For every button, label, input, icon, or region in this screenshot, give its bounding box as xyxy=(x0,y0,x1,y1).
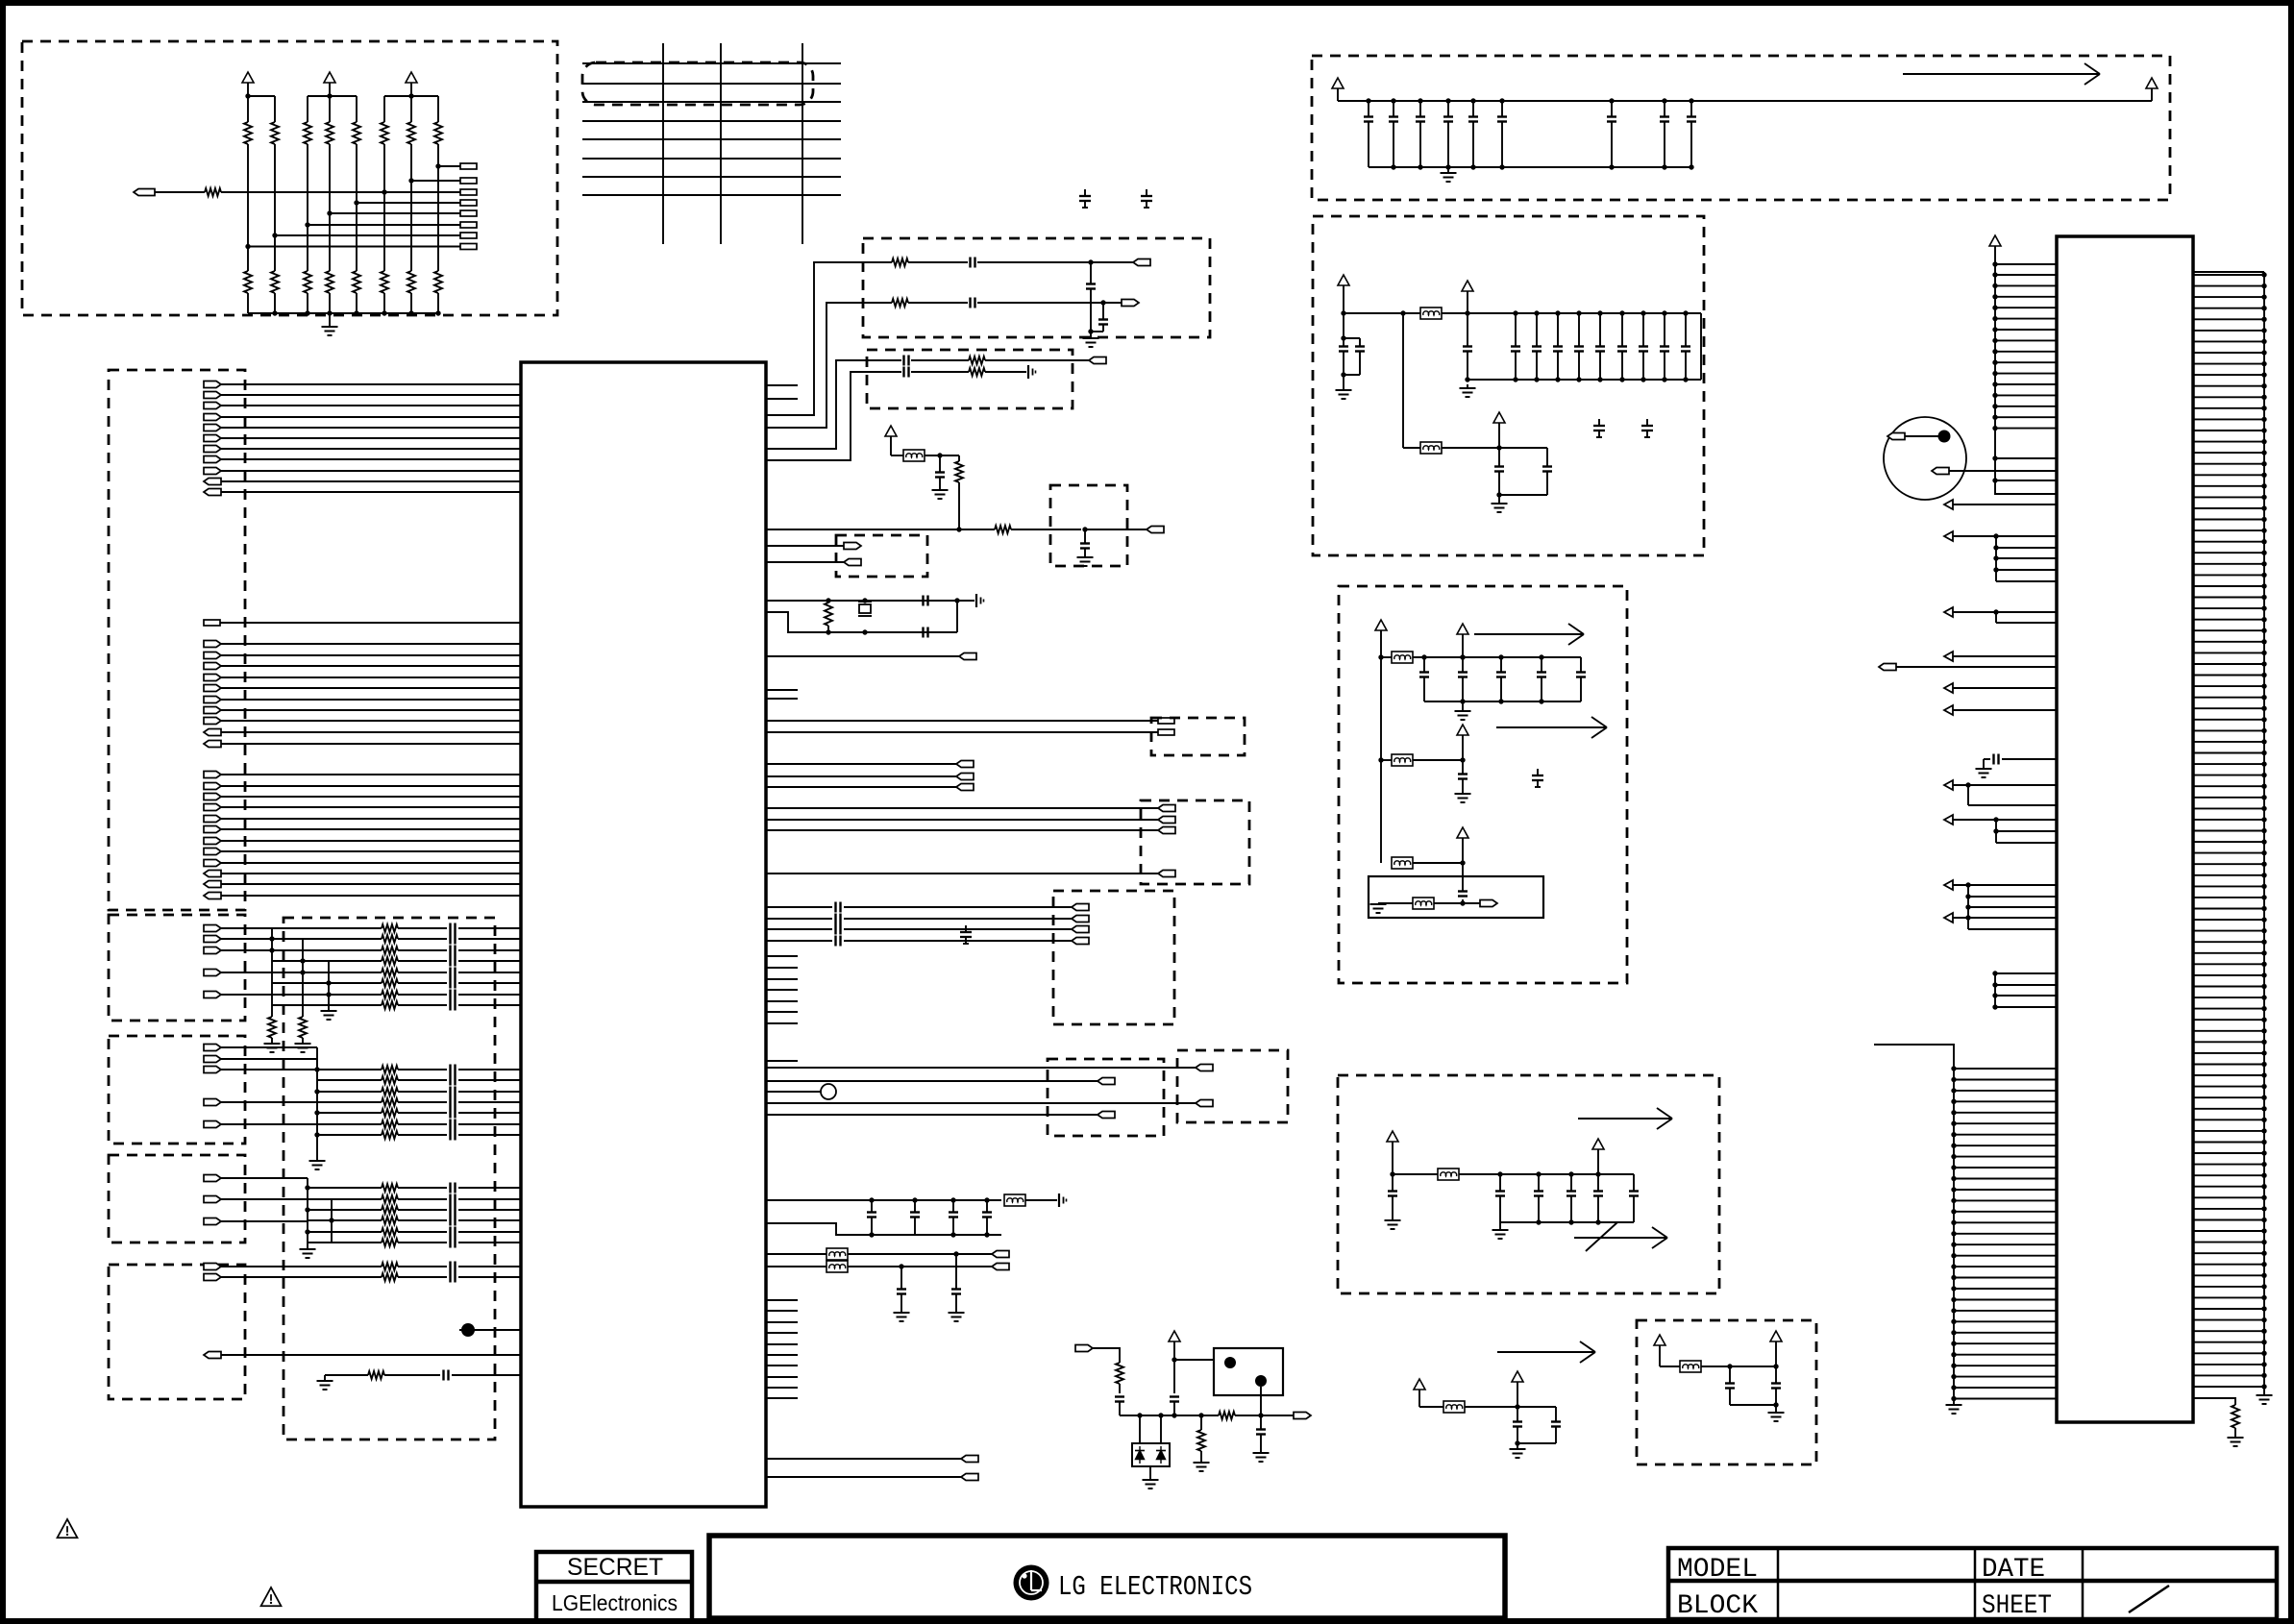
series resistor/cap row D1 (R,C) xyxy=(308,1183,521,1193)
signal flag (mid 2) xyxy=(956,774,974,780)
wire flag row 795 xyxy=(766,763,956,765)
wire branch2 xyxy=(1378,757,1465,762)
capacitor C (audio1 gnd) xyxy=(1086,262,1096,334)
filter capacitor C15 xyxy=(1617,310,1627,381)
bypass capacitor C1 (bank) xyxy=(1364,98,1373,167)
filter capacitor C30 (mem) xyxy=(1495,1174,1505,1222)
signal flag (grp3 3) xyxy=(1072,926,1089,933)
pin stub U1 right 3 xyxy=(766,689,798,691)
power arrow (bead2) xyxy=(1493,412,1505,448)
power arrow (bank right) xyxy=(2146,78,2158,101)
signal arrow (branch1) xyxy=(1474,624,1584,645)
pin arrow U2 group a xyxy=(1944,531,2057,581)
power arrow VCC (col7) xyxy=(406,72,417,96)
resistor R (xtal) xyxy=(825,598,832,634)
bypass capacitor C9 (bank) xyxy=(1687,98,1696,167)
signal flag LCD pin 7 xyxy=(204,446,221,453)
ferrite bead FB2 xyxy=(1420,442,1442,454)
filter capacitor C13 xyxy=(1574,310,1584,381)
svg-text:SHEET: SHEET xyxy=(1982,1591,2052,1621)
ground (tie B1) xyxy=(264,1038,281,1052)
series resistor/cap row B5 (R,C) xyxy=(272,968,521,978)
wire LCD pin 5 to U1 xyxy=(221,427,521,429)
signal flag LCD pin 2 xyxy=(204,392,221,399)
pull-up/pull-down resistor column 5 (R5a top, R5b bottom) xyxy=(353,96,360,313)
wire U1 long row xyxy=(766,529,995,530)
capacitor C (chg3) xyxy=(1256,1415,1266,1453)
wire U1 to RC2 row1 xyxy=(766,360,867,449)
dashed box: audio supply filters xyxy=(1339,586,1627,983)
wire aux lower xyxy=(1730,1404,1776,1406)
wire LCD pin 10 to U1 xyxy=(221,480,521,482)
wire U1 aux b xyxy=(925,453,959,457)
wire group U2 mid-left pins (4) xyxy=(1992,971,2057,1009)
signal arrow (mem) 1 xyxy=(1578,1108,1672,1129)
signal flag (chg in) xyxy=(1075,1345,1093,1352)
resistor R (mic1) xyxy=(969,357,1089,364)
capacitor C40 (aux) xyxy=(1513,1407,1522,1446)
input signal flag (key row in) xyxy=(134,189,205,196)
wire conn A pin 3 to U1 xyxy=(221,665,521,667)
pin stub U1 right mid 5 xyxy=(766,1000,798,1002)
pin stub U1 right mid 7 xyxy=(766,1022,798,1024)
ground (branch1) xyxy=(1455,701,1471,720)
filter capacitor C20 (branch1) xyxy=(1419,654,1429,701)
signal flag conn A pin 5 xyxy=(204,685,221,692)
LG ELECTRONICS title block with logo xyxy=(709,1536,1505,1618)
warning triangle 2 xyxy=(261,1587,282,1606)
wire tie B col2 xyxy=(300,939,305,1017)
signal flag LCD pin 4 xyxy=(204,414,221,421)
svg-text:BLOCK: BLOCK xyxy=(1677,1591,1758,1621)
power arrow (bank left) xyxy=(1332,78,1344,101)
dashed box: test point flags xyxy=(836,535,927,577)
power arrow (U1 aux) xyxy=(885,426,897,455)
wire tie D col2 xyxy=(329,1199,333,1243)
power arrow (mem filter) xyxy=(1387,1131,1398,1177)
wire LCD pin 9 to U1 xyxy=(221,470,521,472)
filter capacitor C14 xyxy=(1595,310,1605,381)
signal flag (grp2 1) xyxy=(1158,805,1175,812)
resistor (E RC) xyxy=(368,1371,384,1379)
signal flag conn B pin 11 xyxy=(204,881,221,888)
resistor R (audio1) xyxy=(863,258,968,266)
capacitor C42 xyxy=(1725,1366,1735,1405)
ferrite bead FB10 xyxy=(903,450,925,461)
ground (diodes) xyxy=(1143,1466,1159,1489)
wire filter branch tap xyxy=(1403,313,1420,448)
signal flag LCD pin 5 xyxy=(204,425,221,431)
power arrow (branch feed) xyxy=(1375,620,1387,863)
wire conn B pin 5 to U1 xyxy=(221,818,521,820)
wire flag C 1 xyxy=(221,1046,317,1048)
wire group U2 upper-left pins (16) xyxy=(1992,261,2057,494)
power arrow (after bead) xyxy=(1462,281,1473,313)
pull-up/pull-down resistor column 1 (R1a top, R1b bottom) xyxy=(244,96,252,313)
bypass capacitor C2 (bank) xyxy=(1389,98,1398,167)
signal flag (grp2 3) xyxy=(1158,827,1175,834)
wire conn A pin 9 to U1 xyxy=(221,731,521,733)
diode D1 xyxy=(1135,1446,1145,1464)
series resistor/cap row B6 (R,C) xyxy=(272,978,521,989)
signal flag LCD pin 1 xyxy=(204,381,221,388)
signal flag conn A pin 8 xyxy=(204,718,221,725)
wire LCD pin 3 to U1 xyxy=(221,405,521,406)
series resistor (key input) xyxy=(205,188,221,196)
wire U2 pin row 477 xyxy=(1992,455,2057,460)
wire U1 to RC box row2 xyxy=(766,303,863,428)
wire LCD pin 7 to U1 xyxy=(221,448,521,450)
capacitor C (mic1) xyxy=(904,356,970,366)
dashed box: flags group 4 xyxy=(1048,1059,1164,1136)
signal flag group C 5 xyxy=(204,1121,221,1128)
dashed box: audio out RC filter xyxy=(863,238,1210,337)
dashed box: flags group 3 xyxy=(1053,891,1174,1024)
key matrix row wire 6 to terminal xyxy=(305,222,477,228)
capacitor C51 (bus) xyxy=(910,1200,920,1235)
wire after bead xyxy=(1442,310,1701,315)
capacitor C50 (bus) xyxy=(867,1200,876,1235)
ground (after bead) xyxy=(1460,384,1476,397)
ground (branch2) xyxy=(1455,794,1471,802)
pull-up/pull-down resistor column 3 (R3a top, R3b bottom) xyxy=(304,96,311,313)
svg-text:MODEL: MODEL xyxy=(1677,1555,1758,1585)
wire flag row 683 xyxy=(766,655,959,657)
wire mem rail b xyxy=(1459,1171,1634,1176)
capacitor C41 (aux) xyxy=(1517,1407,1561,1443)
wire conn B pin 10 to U1 xyxy=(221,873,521,874)
signal flag (grp3 4) xyxy=(1072,938,1089,945)
wire U2 pin row 500 xyxy=(1992,478,2057,482)
pin arrow U2 left simple 1 xyxy=(1944,500,2057,509)
signal flag (g5 1) xyxy=(1196,1065,1213,1071)
signal flag LCD pin 11 xyxy=(204,489,221,496)
wire g5 row2 xyxy=(766,1102,1196,1104)
pin stub U1 right mid 6 xyxy=(766,1011,798,1013)
signal flag (bottom2) xyxy=(961,1474,978,1481)
key matrix horizontal line 2 xyxy=(582,83,841,85)
input cap pair C (parallel) xyxy=(1339,313,1365,378)
bypass cap shorthand (matrix area) 1 xyxy=(1079,189,1091,208)
power arrow (aux4) xyxy=(1770,1331,1782,1369)
dashed box: flags group 5 xyxy=(1177,1050,1288,1122)
wire tie C col1 xyxy=(314,1080,319,1161)
wire conn A pin 2 to U1 xyxy=(221,654,521,656)
IC U1 (main processor) xyxy=(521,362,766,1507)
signal flag group C 3 xyxy=(204,1067,221,1073)
wire rtc xyxy=(1378,902,1413,904)
ground (adc) xyxy=(1077,557,1094,566)
signal flag (mid 1) xyxy=(956,761,974,768)
series resistor/cap row B4 (R,C) xyxy=(272,956,521,967)
wire conn B pin 12 to U1 xyxy=(221,895,521,897)
wire flag D 2 xyxy=(221,1198,308,1200)
wire conn B pin 4 to U1 xyxy=(221,806,521,808)
power arrow VCC (col1) xyxy=(242,72,254,96)
capacitor C (audio1) xyxy=(971,258,1134,268)
signal flag group E 1 xyxy=(204,1264,221,1270)
svg-text:SECRET: SECRET xyxy=(567,1554,663,1581)
signal flag conn B pin 10 xyxy=(204,871,221,877)
wire LCD pin 2 to U1 xyxy=(221,394,521,396)
signal flag conn B pin 2 xyxy=(204,783,221,790)
bypass capacitor C6 (bank) xyxy=(1497,98,1507,167)
signal flag conn A pin 7 xyxy=(204,707,221,714)
key matrix row wire 7 to terminal xyxy=(272,233,477,238)
key matrix vertical line 3 xyxy=(802,43,803,244)
signal flag group C 4 xyxy=(204,1099,221,1106)
wire circle row xyxy=(766,1084,836,1099)
crystal X1 xyxy=(858,598,872,634)
signal flag (tp1) xyxy=(844,543,861,550)
wire branch1 rail xyxy=(1381,654,1581,659)
signal flag (g5 2) xyxy=(1196,1100,1213,1107)
capacitor C (U1 aux) xyxy=(935,455,945,490)
capacitor (after bead) xyxy=(1463,313,1472,382)
dashed box: flags group 2 xyxy=(1141,800,1249,884)
series resistor/cap row E2 (R,C) xyxy=(221,1272,521,1283)
pin stub U1 right low 10 xyxy=(766,1397,798,1399)
resistor R (audio2) xyxy=(863,299,968,307)
power arrow (branch1) xyxy=(1457,624,1468,657)
key matrix horizontal line 7 xyxy=(582,176,841,178)
wire conn A pin 7 to U1 xyxy=(221,709,521,711)
pin stub U1 right low 2 xyxy=(766,1310,798,1312)
pin stub U1 right low 6 xyxy=(766,1354,798,1356)
wire top rail col3-col5 xyxy=(308,93,357,98)
wire group C feed 2 xyxy=(316,1059,318,1080)
signal flag (g4 2) xyxy=(1098,1112,1115,1119)
resistor R (mic2) xyxy=(969,368,1026,376)
filter capacitor C17 xyxy=(1660,310,1669,381)
series resistor/cap row D5 (R,C) xyxy=(308,1227,521,1238)
wire flag2 row 909 xyxy=(766,873,1158,874)
resistor R (U1 row) xyxy=(995,526,1081,533)
ground (resistor array) xyxy=(322,313,338,335)
capacitor shorthand (mic2) xyxy=(1028,365,1036,379)
bypass cap shorthand (matrix area) 2 xyxy=(1141,189,1152,208)
filter capacitor C12 xyxy=(1553,310,1563,381)
pin arrow U2 group c xyxy=(1944,780,2057,805)
capacitor C43 xyxy=(1771,1366,1781,1408)
capacitor C52 (bus) xyxy=(949,1200,958,1235)
svg-text:LG ELECTRONICS: LG ELECTRONICS xyxy=(1058,1571,1252,1603)
terminal (row750) xyxy=(1158,718,1174,724)
wire bottom rail xyxy=(248,310,441,315)
bypass capacitor C4 (bank) xyxy=(1443,98,1453,167)
signal flag (g4 1) xyxy=(1098,1078,1115,1085)
wire chg rail xyxy=(1120,1413,1219,1417)
capacitor shorthand (bus) xyxy=(1059,1193,1067,1207)
dashed box: connector group B xyxy=(109,915,245,1021)
wire conn B pin 9 to U1 xyxy=(221,862,521,864)
ground (U2 pulldown) xyxy=(2228,1428,2244,1446)
resistor (tie B1) xyxy=(268,1017,276,1038)
capacitor C (bead2 a) xyxy=(1494,448,1504,498)
signal flag LCD pin 6 xyxy=(204,435,221,442)
capacitor C (audio2) xyxy=(971,298,1122,308)
wire flag C 3 xyxy=(221,1069,317,1070)
signal flag conn B pin 9 xyxy=(204,860,221,867)
filter capacitor C21 (branch1) xyxy=(1458,654,1468,701)
signal flag LCD pin 8 xyxy=(204,456,221,463)
signal flag (E single) xyxy=(204,1352,221,1359)
wire after bead2 xyxy=(1442,445,1547,450)
signal flag conn B pin 3 xyxy=(204,794,221,800)
signal arrow (mem) 2 xyxy=(1574,1222,1667,1251)
pin stub U1 right 1 xyxy=(766,384,798,386)
pin stub U1 right 1104 xyxy=(766,1060,798,1062)
wire bank lower rail xyxy=(1369,164,1694,169)
dashed box: connector group C xyxy=(109,1036,245,1144)
wire E RC b xyxy=(384,1374,440,1376)
filter capacitor C33 (mem) xyxy=(1593,1174,1603,1222)
wire tie D col1 xyxy=(305,1178,309,1249)
ground (U1 aux) xyxy=(932,490,949,499)
wire g4 row1 xyxy=(766,1080,1098,1082)
mic circle (receiver) xyxy=(1884,417,1966,500)
wire cap bus return xyxy=(766,1223,1001,1238)
dashed box: main power input filter xyxy=(1313,216,1704,555)
title table MODEL/BLOCK/DATE/SHEET xyxy=(1668,1548,2277,1621)
pin arrow U2 group d xyxy=(1944,815,2057,843)
capacitor C (fer2) xyxy=(897,1267,906,1313)
wire aux filter xyxy=(1419,1406,1443,1408)
pin stub U1 right low 9 xyxy=(766,1387,798,1389)
wire xtal bottom rail xyxy=(766,612,957,632)
wire+capacitor flag3 row 979 xyxy=(766,936,1072,947)
IC U2 (memory/companion) xyxy=(2057,236,2193,1422)
signal flag group B 1 xyxy=(204,925,221,932)
series resistor/cap row C7 (R,C) xyxy=(317,1130,521,1141)
wire aux2 xyxy=(1701,1364,1776,1368)
wire+capacitor flag3 row 944 xyxy=(766,902,1072,913)
wire top rail col1-col2 xyxy=(245,93,275,98)
wire flag2 row 841 xyxy=(766,807,1158,809)
signal flag conn B pin 12 xyxy=(204,893,221,899)
svg-text:DATE: DATE xyxy=(1982,1555,2045,1585)
capacitor C (chg2) xyxy=(1170,1397,1179,1416)
spare capacitor shorthand 3 xyxy=(1532,769,1543,787)
wire E RC row xyxy=(325,1374,368,1376)
pin stub U1 right low 5 xyxy=(766,1343,798,1345)
wire chg in xyxy=(1092,1348,1120,1363)
series resistor/cap row E1 (R,C) xyxy=(221,1262,521,1272)
wire group C feed 1 xyxy=(314,1047,319,1072)
key matrix vertical line 1 xyxy=(662,43,664,244)
series resistor/cap row C5 (R,C) xyxy=(317,1108,521,1119)
capacitor C (branch3) xyxy=(1458,863,1468,897)
dashed box: aux supply xyxy=(1637,1320,1816,1464)
wire conn A pin 8 to U1 xyxy=(221,720,521,722)
key matrix horizontal line 1 xyxy=(582,62,841,64)
pin stub U1 right mid 3 xyxy=(766,978,798,980)
pin arrow U2 group e xyxy=(1944,880,2057,929)
signal flag group B 3 xyxy=(204,947,221,954)
signal flag conn B pin 5 xyxy=(204,816,221,823)
wire rtc2 xyxy=(1434,899,1480,906)
signal flag group B 5 xyxy=(204,992,221,998)
ferrite bead FB6 (rtc) xyxy=(1413,898,1434,909)
wire power rail xyxy=(1338,100,2152,102)
wire term row 762 xyxy=(766,731,1158,733)
wire chg box out xyxy=(1260,1387,1262,1415)
dashed box: power bypass capacitor bank xyxy=(1312,56,2170,200)
key matrix horizontal line 8 xyxy=(582,194,841,196)
power arrow (U2 left bus) xyxy=(1989,235,2001,264)
wire flag D 3 xyxy=(221,1220,308,1222)
signal flag (grp2 2) xyxy=(1158,817,1175,824)
wire bus to cap xyxy=(1025,1199,1057,1201)
signal flag conn A pin 10 xyxy=(204,741,221,748)
signal flag (audio1) xyxy=(1133,259,1150,266)
solid box: ESD diode pack xyxy=(1132,1443,1170,1466)
dashed box: connector group E xyxy=(109,1265,245,1399)
series resistor/cap row C4 (R,C) xyxy=(317,1097,521,1108)
pull-up/pull-down resistor column 2 (R2a top, R2b bottom) xyxy=(271,96,279,313)
series resistor/cap row B7 (R,C) xyxy=(272,990,521,1000)
resistor (tie B2) xyxy=(299,1017,307,1038)
wire tie B col3 xyxy=(326,961,331,1011)
wire chg box xyxy=(1174,1359,1214,1361)
pin arrow U2 left simple 2 xyxy=(1944,652,2057,661)
ferrite bead FB13 xyxy=(826,1261,848,1272)
capacitor shorthand (grp3) xyxy=(960,925,972,944)
capacitor C (mem in) xyxy=(1388,1174,1397,1220)
signal flag group B 4 xyxy=(204,970,221,976)
ground (bead2) xyxy=(1492,495,1508,512)
filter capacitor C10 xyxy=(1511,310,1520,381)
series resistor/cap row C1 (R,C) xyxy=(317,1065,521,1075)
power arrow (aux2) xyxy=(1512,1371,1523,1407)
pin stub U1 right low 8 xyxy=(766,1376,798,1378)
filter capacitor C11 xyxy=(1532,310,1542,381)
series resistor/cap row B2 (R,C) xyxy=(272,934,521,945)
wire branch1 lower rail xyxy=(1424,699,1581,703)
wire LCD pin 11 to U1 xyxy=(221,491,521,493)
pull-up/pull-down resistor column 4 (R4a top, R4b bottom) xyxy=(326,96,333,313)
series resistor/cap row C6 (R,C) xyxy=(317,1120,521,1130)
key matrix horizontal line 6 xyxy=(582,158,841,160)
SECRET stamp box xyxy=(536,1552,692,1624)
wire group U2 right pins (101) xyxy=(2193,272,2267,1395)
ferrite bead FB12 xyxy=(826,1248,848,1260)
capacitor C (chg) xyxy=(1115,1384,1124,1415)
solid box: LED/illumination xyxy=(1214,1348,1283,1395)
signal flag conn B pin 4 xyxy=(204,804,221,811)
signal flag group C 2 xyxy=(204,1056,221,1063)
signal flag conn A pin 3 xyxy=(204,663,221,670)
series resistor/cap row B8 (R,C) xyxy=(272,1000,521,1011)
ground (E RC row) xyxy=(317,1375,333,1390)
signal flag (adc) xyxy=(1147,527,1164,533)
ground (rtc) xyxy=(1370,903,1387,913)
signal flag (grp3 1) xyxy=(1072,904,1089,911)
pull-up/pull-down resistor column 7 (R7a top, R7b bottom) xyxy=(407,96,415,313)
wire flag2 row 864 xyxy=(766,829,1158,831)
power arrow (mem out) xyxy=(1592,1139,1604,1174)
wire flag C 4 xyxy=(221,1101,317,1103)
wire diode drop 1 xyxy=(1139,1415,1141,1443)
wire filter lower rail xyxy=(1468,313,1701,380)
wire U2 lower-left bus feed xyxy=(1874,1045,1954,1057)
filter capacitor C22 (branch1) xyxy=(1496,654,1506,701)
wire flag2 row 853 xyxy=(766,819,1158,821)
ferrite bead FB8 xyxy=(1443,1401,1465,1413)
wire conn B pin 2 to U1 xyxy=(221,785,521,787)
wire conn A pin 4 to U1 xyxy=(221,677,521,678)
wire U1 bottom out2 xyxy=(766,1476,961,1478)
